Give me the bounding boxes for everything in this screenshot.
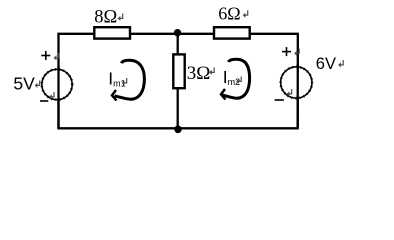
return mark after 8 ohm [118, 14, 123, 21]
wire through 6V source [296, 64, 298, 128]
return mark after Im1 [122, 78, 127, 85]
return mark after 6 ohm [243, 10, 248, 17]
mesh current arrow Im2 [221, 59, 250, 99]
return mark after 3 ohm [209, 68, 214, 75]
return mark after right plus [294, 49, 299, 56]
wire middle branch [177, 34, 179, 129]
wire bottom [57, 127, 298, 129]
voltage source 6V circle [281, 67, 312, 98]
wire top-right: 6ohm resistor to right corner down [250, 34, 298, 129]
svg-text:8Ω: 8Ω [94, 8, 117, 28]
return mark after 6V [338, 60, 343, 67]
resistor 8ohm box [94, 27, 130, 38]
minus sign of 5V source [40, 100, 48, 102]
node junction dot bottom [174, 126, 182, 134]
plus sign of 5V source [41, 51, 50, 60]
return mark after 5V [35, 81, 40, 88]
resistor 6ohm box [214, 27, 250, 38]
wire top-middle: 8ohm resistor to 6ohm resistor [130, 33, 214, 35]
return mark inside 6V circle [287, 89, 292, 96]
voltage source 5V circle [42, 69, 72, 99]
return mark after left plus [54, 53, 59, 60]
plus sign of 6V source [282, 47, 291, 56]
svg-text:5V: 5V [13, 74, 35, 94]
node junction dot top [174, 29, 181, 36]
mesh current arrow Im1 [112, 60, 144, 100]
minus sign of 6V source [275, 99, 284, 101]
resistor 3ohm box [173, 54, 184, 88]
wire through 5V source [57, 66, 59, 128]
svg-text:3Ω: 3Ω [187, 63, 211, 84]
return mark after Im2 [236, 77, 241, 84]
svg-text:6V: 6V [316, 55, 336, 73]
return mark inside 5V circle [49, 92, 54, 99]
wire top-left: left corner to 8ohm resistor [59, 34, 95, 129]
svg-text:6Ω: 6Ω [218, 4, 240, 24]
